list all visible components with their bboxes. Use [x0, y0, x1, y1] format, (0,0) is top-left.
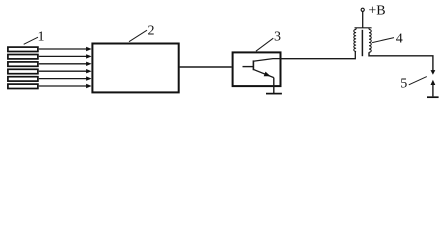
- +B terminal circle: [361, 8, 364, 11]
- wire arrow 5: [39, 78, 87, 80]
- wire block2 to block3: [180, 66, 232, 68]
- wire arrow 1: [39, 48, 87, 50]
- arrowhead 6: [86, 84, 92, 88]
- label 2 leader: [129, 30, 147, 42]
- svg-text:1: 1: [38, 29, 45, 44]
- transformer 4 core: [361, 30, 363, 56]
- spark gap lower electrode stem: [432, 85, 434, 97]
- arrowhead 2: [86, 54, 92, 58]
- svg-text:2: 2: [148, 23, 155, 38]
- bar 1: [8, 47, 38, 51]
- +B lead wire: [362, 11, 364, 28]
- block 2 (control unit box): [92, 44, 178, 93]
- bar 4: [8, 69, 38, 73]
- spark gap upper electrode arrowhead: [431, 70, 436, 75]
- transistor Q1 emitter arrowhead: [264, 72, 271, 77]
- transistor Q1 base lead: [243, 66, 254, 68]
- svg-text:4: 4: [396, 31, 403, 46]
- transistor Q1 emitter: [253, 69, 273, 77]
- label 1 leader: [24, 37, 38, 44]
- svg-text:3: 3: [274, 30, 281, 45]
- arrowhead 1: [86, 47, 92, 51]
- wire secondary to spark gap: [369, 52, 433, 70]
- sensor comb 1: stack of 6 bars: [8, 47, 38, 88]
- ground bar: [266, 93, 282, 95]
- bar 5: [8, 77, 38, 81]
- wire arrow 3: [39, 63, 87, 65]
- transformer 4 primary winding (left): [354, 29, 356, 51]
- arrowhead 4: [86, 69, 92, 73]
- label 4 leader: [372, 38, 394, 43]
- spark gap lower electrode arrowhead: [431, 80, 436, 85]
- svg-text:5: 5: [400, 77, 407, 92]
- bar 2: [8, 55, 38, 59]
- bar 3: [8, 62, 38, 66]
- transistor Q1 collector: [253, 59, 281, 62]
- wire block3 to transformer primary: [281, 51, 355, 58]
- label 3 leader: [256, 38, 273, 51]
- ground lead: [273, 78, 275, 94]
- transformer top tie bar: [355, 28, 372, 30]
- label 5 leader: [409, 77, 427, 85]
- spark gap base bar: [427, 96, 439, 98]
- block 3 (output stage box): [233, 52, 281, 86]
- arrowhead 3: [86, 62, 92, 66]
- bar 6: [8, 84, 38, 88]
- wire arrow 4: [39, 70, 87, 72]
- arrowhead 5: [86, 76, 92, 80]
- wire arrow 6: [39, 85, 87, 87]
- transistor Q1 body bar: [252, 60, 254, 70]
- transformer 4 secondary winding (right): [369, 29, 371, 52]
- svg-text:+B: +B: [368, 4, 385, 19]
- arrow wires from comb to block 2: [39, 49, 87, 86]
- wire arrow 2: [39, 55, 87, 57]
